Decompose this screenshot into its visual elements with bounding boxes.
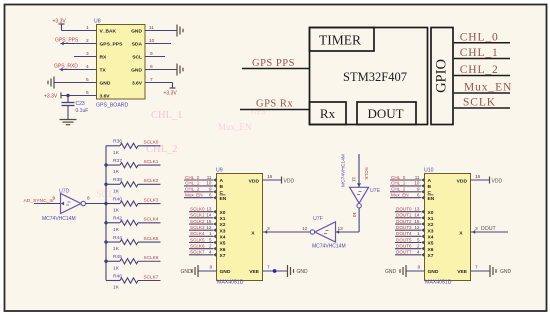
svg-text:1K: 1K xyxy=(113,188,120,194)
svg-text:1: 1 xyxy=(209,231,212,236)
U10 pin 8 wire xyxy=(406,270,425,272)
svg-text:SCLK4: SCLK4 xyxy=(190,231,205,236)
svg-text:X4: X4 xyxy=(220,235,226,241)
svg-text:MAX4051D: MAX4051D xyxy=(425,280,452,286)
svg-text:GPS_PPS: GPS_PPS xyxy=(55,38,79,44)
svg-text:SCLK: SCLK xyxy=(463,97,496,109)
svg-text:CHL_0: CHL_0 xyxy=(391,175,406,180)
resistor R40 1K xyxy=(106,203,120,205)
svg-text:SCLK2: SCLK2 xyxy=(190,219,205,224)
svg-text:X5: X5 xyxy=(428,241,434,247)
svg-text:9: 9 xyxy=(209,187,212,192)
wire U8 pin 9 xyxy=(145,56,165,58)
svg-text:GND: GND xyxy=(385,269,397,275)
svg-text:Mux_EN: Mux_EN xyxy=(391,193,409,198)
svg-text:1K: 1K xyxy=(113,265,120,271)
svg-text:SCLK: SCLK xyxy=(363,167,369,181)
bus junction at R45 xyxy=(104,260,107,263)
svg-text:EN: EN xyxy=(220,196,227,202)
svg-text:DOUT5: DOUT5 xyxy=(396,237,412,242)
U9 pin 3 X output xyxy=(264,230,267,234)
U9 pin X4 / SCLK4 xyxy=(189,235,213,237)
svg-text:1: 1 xyxy=(417,231,420,236)
ground at U8 pin 8 xyxy=(177,64,183,76)
svg-text:3: 3 xyxy=(475,226,478,232)
svg-text:GND: GND xyxy=(131,29,142,35)
svg-text:15: 15 xyxy=(414,219,420,224)
bus junction at R38 xyxy=(104,183,107,186)
U9 pin X2 / SCLK2 xyxy=(189,223,213,225)
wire GPS_PPS to STM32 xyxy=(242,68,310,70)
svg-text:VDD: VDD xyxy=(249,178,260,184)
wire U7D output to bus xyxy=(86,203,107,205)
wire U8 pin 5 xyxy=(54,82,97,84)
svg-text:B: B xyxy=(220,184,224,190)
capacitor C23 0.1uF xyxy=(67,96,69,103)
resistor R36 1K xyxy=(106,145,120,147)
svg-text:SCLK5: SCLK5 xyxy=(144,236,159,241)
U9 pin X6 / SCLK6 xyxy=(189,248,213,250)
svg-text:10: 10 xyxy=(206,181,212,186)
svg-text:CHL_0: CHL_0 xyxy=(460,31,499,43)
Rx block xyxy=(310,102,347,125)
svg-text:X2: X2 xyxy=(428,222,434,228)
svg-text:12: 12 xyxy=(206,225,212,230)
wire U8 pin 6 xyxy=(61,95,97,97)
U10 pin X2 / DOUT2 xyxy=(395,223,421,225)
vertical bus wire for resistor ladder xyxy=(105,146,107,281)
U9 pin X5 / SCLK5 xyxy=(189,242,213,244)
svg-text:X7: X7 xyxy=(428,253,434,259)
svg-text:DOUT4: DOUT4 xyxy=(396,231,412,236)
svg-text:MAX4051D: MAX4051D xyxy=(217,280,244,286)
svg-text:4: 4 xyxy=(417,250,420,255)
wire U7E output down xyxy=(358,208,360,232)
STM32F407 MCU block xyxy=(310,28,428,125)
svg-text:11: 11 xyxy=(352,177,357,182)
svg-text:TIMER: TIMER xyxy=(319,33,361,48)
svg-text:R38: R38 xyxy=(113,177,122,183)
svg-text:VDD: VDD xyxy=(457,178,468,184)
svg-text:MC74VHC14M: MC74VHC14M xyxy=(42,216,76,222)
svg-text:RX: RX xyxy=(100,55,108,61)
svg-text:14: 14 xyxy=(414,213,420,218)
power +3.3V at U8 pin 7 xyxy=(170,87,176,89)
wire U8 pin 8 xyxy=(145,69,177,71)
svg-text:2: 2 xyxy=(209,243,212,248)
svg-text:+3.3V: +3.3V xyxy=(44,94,58,100)
resistor R46 1K xyxy=(106,280,120,282)
connector U8 GPS_BOARD body xyxy=(97,25,146,100)
svg-text:1K: 1K xyxy=(113,285,120,291)
U9 pin 8 wire xyxy=(198,270,217,272)
svg-text:GPS_BOARD: GPS_BOARD xyxy=(96,103,129,109)
svg-text:4: 4 xyxy=(209,250,212,255)
U10 pin X0 / DOUT0 xyxy=(395,211,421,213)
svg-text:8: 8 xyxy=(418,265,421,271)
U9 pin 16 VDD wire xyxy=(263,179,282,181)
svg-text:U7D: U7D xyxy=(59,189,70,195)
svg-text:14: 14 xyxy=(206,213,212,218)
svg-text:SCLK4: SCLK4 xyxy=(144,217,159,222)
wire U9 X to U7F output xyxy=(263,231,311,233)
svg-text:DOUT2: DOUT2 xyxy=(396,219,412,224)
svg-text:+3.3V: +3.3V xyxy=(164,91,178,97)
svg-text:3: 3 xyxy=(86,51,89,57)
resistor R44 1K xyxy=(106,241,120,243)
bus junction at R37 xyxy=(104,163,107,166)
bus junction at R40 xyxy=(104,202,107,205)
svg-text:SCL: SCL xyxy=(132,55,142,61)
svg-text:DOUT: DOUT xyxy=(367,106,403,121)
svg-text:10: 10 xyxy=(414,181,420,186)
svg-text:SCLK1: SCLK1 xyxy=(190,213,205,218)
wire AD_SYNC_In to U7D xyxy=(34,203,61,205)
wire U8 pin 1 xyxy=(62,30,97,32)
svg-text:12: 12 xyxy=(302,226,308,232)
svg-text:4: 4 xyxy=(86,64,89,70)
resistor R45 1K xyxy=(106,260,120,262)
svg-text:B: B xyxy=(428,184,432,190)
U10 pin X3 / DOUT3 xyxy=(395,229,421,231)
svg-text:X5: X5 xyxy=(220,241,226,247)
svg-text:X1: X1 xyxy=(428,216,434,222)
inverter U7D xyxy=(61,194,82,214)
svg-text:SCLK3: SCLK3 xyxy=(144,197,159,202)
U9 pin X0 / SCLK0 xyxy=(189,211,213,213)
svg-text:GND: GND xyxy=(100,81,111,87)
svg-text:U8: U8 xyxy=(94,19,101,25)
svg-text:X7: X7 xyxy=(220,253,226,259)
svg-text:Mux_EN: Mux_EN xyxy=(185,193,203,198)
ground at U10 pin 7 xyxy=(490,265,496,277)
svg-text:X1: X1 xyxy=(220,216,226,222)
power port VDD at U10 xyxy=(489,177,491,184)
wire GPS_Rx to STM32 xyxy=(240,109,310,111)
ground at U8 pin 11 xyxy=(177,25,183,37)
U9 pin X7 / SCLK7 xyxy=(189,254,213,256)
U10 pin X4 / DOUT4 xyxy=(395,235,421,237)
svg-text:A: A xyxy=(428,178,432,184)
TIMER block xyxy=(310,28,375,52)
U9 control pin A / CHL_0 xyxy=(184,179,213,181)
svg-text:0.1uF: 0.1uF xyxy=(76,108,89,114)
svg-text:R37: R37 xyxy=(113,158,122,164)
junction dot at U9 VEE xyxy=(273,269,277,273)
svg-text:9: 9 xyxy=(53,196,56,202)
svg-text:10: 10 xyxy=(352,212,357,218)
bus junction at R42 xyxy=(104,221,107,224)
svg-text:1K: 1K xyxy=(113,208,120,214)
svg-text:6: 6 xyxy=(417,193,420,198)
U10 pin X6 / DOUT6 xyxy=(395,248,421,250)
svg-text:CHL_2: CHL_2 xyxy=(185,187,200,192)
ground below C23 xyxy=(60,120,77,125)
svg-text:Mux_EN: Mux_EN xyxy=(464,82,512,94)
U9 control pin B / CHL_1 xyxy=(184,185,213,187)
svg-text:C23: C23 xyxy=(76,101,85,107)
svg-text:8: 8 xyxy=(87,196,90,202)
svg-text:VDD: VDD xyxy=(492,178,503,184)
svg-text:1K: 1K xyxy=(113,227,120,233)
svg-text:15: 15 xyxy=(206,219,212,224)
ground at U8 pin 5 xyxy=(48,77,54,89)
U10 pin 7 VEE wire xyxy=(471,270,491,272)
svg-text:GND: GND xyxy=(428,269,439,275)
svg-text:U10: U10 xyxy=(424,168,434,174)
svg-text:16: 16 xyxy=(475,174,481,180)
svg-text:7: 7 xyxy=(475,265,478,271)
svg-text:R36: R36 xyxy=(113,139,122,145)
DOUT block xyxy=(357,102,416,125)
wire U8 pin 7 xyxy=(145,82,173,84)
resistor R38 1K xyxy=(106,183,120,185)
svg-text:R45: R45 xyxy=(113,254,122,260)
U10 control pin B / CHL_1 xyxy=(390,185,421,187)
U9 control pin C / CHL_2 xyxy=(184,191,213,193)
svg-text:GND: GND xyxy=(297,269,309,275)
inverter U7E xyxy=(350,187,369,203)
wire U10 X output DOUT xyxy=(471,231,509,233)
U10 control pin A / CHL_0 xyxy=(390,179,421,181)
svg-text:X3: X3 xyxy=(220,228,226,234)
svg-text:3: 3 xyxy=(267,226,270,232)
svg-text:X4: X4 xyxy=(428,235,434,241)
svg-text:DOUT0: DOUT0 xyxy=(396,207,412,212)
U10 control pin EN / Mux_EN xyxy=(390,197,421,199)
svg-text:1: 1 xyxy=(86,25,89,31)
svg-text:5: 5 xyxy=(86,77,89,83)
svg-text:CHL_1: CHL_1 xyxy=(460,47,499,59)
svg-text:CHL_1: CHL_1 xyxy=(151,110,183,121)
svg-text:MC74VHC14M: MC74VHC14M xyxy=(312,244,346,250)
svg-text:CHL_0: CHL_0 xyxy=(185,175,200,180)
svg-text:GPS_RXD: GPS_RXD xyxy=(54,64,78,70)
svg-text:Rx: Rx xyxy=(320,106,336,121)
svg-text:6: 6 xyxy=(209,193,212,198)
U9 pin X1 / SCLK1 xyxy=(189,217,213,219)
svg-text:1K: 1K xyxy=(113,150,120,156)
svg-text:8: 8 xyxy=(150,64,153,70)
svg-text:SCLK1: SCLK1 xyxy=(144,159,159,164)
wire U8 pin 3 xyxy=(74,56,97,58)
svg-text:VEE: VEE xyxy=(249,269,260,275)
svg-text:12: 12 xyxy=(414,225,420,230)
svg-text:TX: TX xyxy=(100,68,107,74)
svg-text:X3: X3 xyxy=(428,228,434,234)
svg-text:9: 9 xyxy=(150,51,153,57)
svg-text:X0: X0 xyxy=(220,210,226,216)
U10 pin 3 X output xyxy=(472,230,475,234)
U10 pin X7 / DOUT7 xyxy=(395,254,421,256)
wire U8 pin 2 xyxy=(61,43,97,45)
wire U8 pin 4 xyxy=(60,69,97,71)
svg-text:7: 7 xyxy=(267,265,270,271)
svg-text:SCLK7: SCLK7 xyxy=(190,250,205,255)
GPIO block xyxy=(431,28,453,125)
svg-text:16: 16 xyxy=(267,174,273,180)
U10 pin 16 VDD wire xyxy=(471,179,490,181)
svg-text:9: 9 xyxy=(417,187,420,192)
svg-text:7: 7 xyxy=(150,77,153,83)
multiplexer U10 MAX4051D body xyxy=(425,174,471,281)
svg-text:V_BAK: V_BAK xyxy=(100,29,117,35)
bus junction at R44 xyxy=(104,240,107,243)
svg-text:SDA: SDA xyxy=(132,42,143,48)
svg-text:GND: GND xyxy=(500,269,512,275)
svg-text:1K: 1K xyxy=(113,246,120,252)
svg-text:DOUT7: DOUT7 xyxy=(396,250,412,255)
svg-text:13: 13 xyxy=(414,207,420,212)
U10 control pin C / CHL_2 xyxy=(390,191,421,193)
svg-text:2: 2 xyxy=(86,38,89,44)
svg-text:3.6V: 3.6V xyxy=(100,94,111,100)
svg-text:GPS_PPS: GPS_PPS xyxy=(100,42,124,48)
U10 pin X1 / DOUT1 xyxy=(395,217,421,219)
svg-text:5: 5 xyxy=(417,237,420,242)
svg-text:6: 6 xyxy=(86,90,89,96)
svg-text:11: 11 xyxy=(207,175,212,180)
svg-text:GPIO: GPIO xyxy=(434,59,450,93)
wire U8 pin 11 xyxy=(145,30,177,32)
svg-text:10: 10 xyxy=(149,38,155,44)
svg-text:MC74VHC14M: MC74VHC14M xyxy=(341,154,347,187)
svg-text:VEE: VEE xyxy=(457,269,468,275)
svg-text:GND: GND xyxy=(181,269,193,275)
svg-text:CHL_1: CHL_1 xyxy=(391,181,406,186)
svg-text:2: 2 xyxy=(417,243,420,248)
multiplexer U9 MAX4051D body xyxy=(217,174,263,281)
svg-text:3.6V: 3.6V xyxy=(132,81,143,87)
U10 pin X5 / DOUT5 xyxy=(395,242,421,244)
svg-text:A: A xyxy=(220,178,224,184)
svg-text:SCLK2: SCLK2 xyxy=(144,178,159,183)
svg-text:X0: X0 xyxy=(428,210,434,216)
svg-text:R44: R44 xyxy=(113,235,122,241)
svg-text:SCLK0: SCLK0 xyxy=(190,207,205,212)
svg-text:CHL_2: CHL_2 xyxy=(460,64,499,76)
net SCLK vertical wire xyxy=(358,154,360,187)
U9 pin 7 VEE wire xyxy=(263,270,288,272)
svg-text:DOUT6: DOUT6 xyxy=(396,243,412,248)
svg-text:GPS PPS: GPS PPS xyxy=(252,58,295,69)
svg-text:SCLK6: SCLK6 xyxy=(190,243,205,248)
resistor R42 1K xyxy=(106,222,120,224)
svg-text:X6: X6 xyxy=(220,247,226,253)
svg-text:SCLK0: SCLK0 xyxy=(144,140,159,145)
svg-text:13: 13 xyxy=(206,207,212,212)
svg-text:13: 13 xyxy=(338,226,344,232)
svg-text:11: 11 xyxy=(149,25,154,31)
svg-text:X2: X2 xyxy=(220,222,226,228)
svg-text:SCLK7: SCLK7 xyxy=(144,274,159,279)
svg-text:DOUT: DOUT xyxy=(481,226,497,232)
svg-text:SCLK3: SCLK3 xyxy=(190,225,205,230)
svg-text:CHL_2: CHL_2 xyxy=(391,187,406,192)
svg-text:R40: R40 xyxy=(113,196,122,202)
svg-text:1K: 1K xyxy=(113,169,120,175)
svg-text:R46: R46 xyxy=(113,273,122,279)
svg-text:U7F: U7F xyxy=(313,216,323,222)
svg-text:VDD: VDD xyxy=(284,178,295,184)
svg-text:Mux_EN: Mux_EN xyxy=(218,122,252,132)
svg-text:5: 5 xyxy=(209,237,212,242)
U9 control pin EN / Mux_EN xyxy=(184,197,213,199)
svg-text:CHL_1: CHL_1 xyxy=(185,181,200,186)
svg-text:U7E: U7E xyxy=(370,188,381,194)
junction node at C23 xyxy=(66,94,69,97)
svg-text:X6: X6 xyxy=(428,247,434,253)
svg-text:U9: U9 xyxy=(216,168,223,174)
svg-text:GPS Rx: GPS Rx xyxy=(256,99,293,110)
U9 pin X3 / SCLK3 xyxy=(189,229,213,231)
wire U8 pin 10 xyxy=(145,43,171,45)
ground at U9 pin 7 xyxy=(288,265,294,277)
resistor R37 1K xyxy=(106,164,120,166)
svg-text:11: 11 xyxy=(415,175,420,180)
svg-text:EN: EN xyxy=(428,196,435,202)
inverter U7F xyxy=(315,222,336,242)
svg-text:GND: GND xyxy=(220,269,231,275)
svg-text:R42: R42 xyxy=(113,216,122,222)
svg-text:SCLK6: SCLK6 xyxy=(144,255,159,260)
power port VDD at U9 xyxy=(281,177,283,184)
svg-text:DOUT1: DOUT1 xyxy=(396,213,412,218)
svg-text:DOUT3: DOUT3 xyxy=(396,225,412,230)
svg-text:STM32F407: STM32F407 xyxy=(343,70,407,84)
svg-text:SCLK5: SCLK5 xyxy=(190,237,205,242)
wire corner to U7F input xyxy=(336,231,360,233)
svg-text:GND: GND xyxy=(131,68,142,74)
svg-text:8: 8 xyxy=(210,265,213,271)
